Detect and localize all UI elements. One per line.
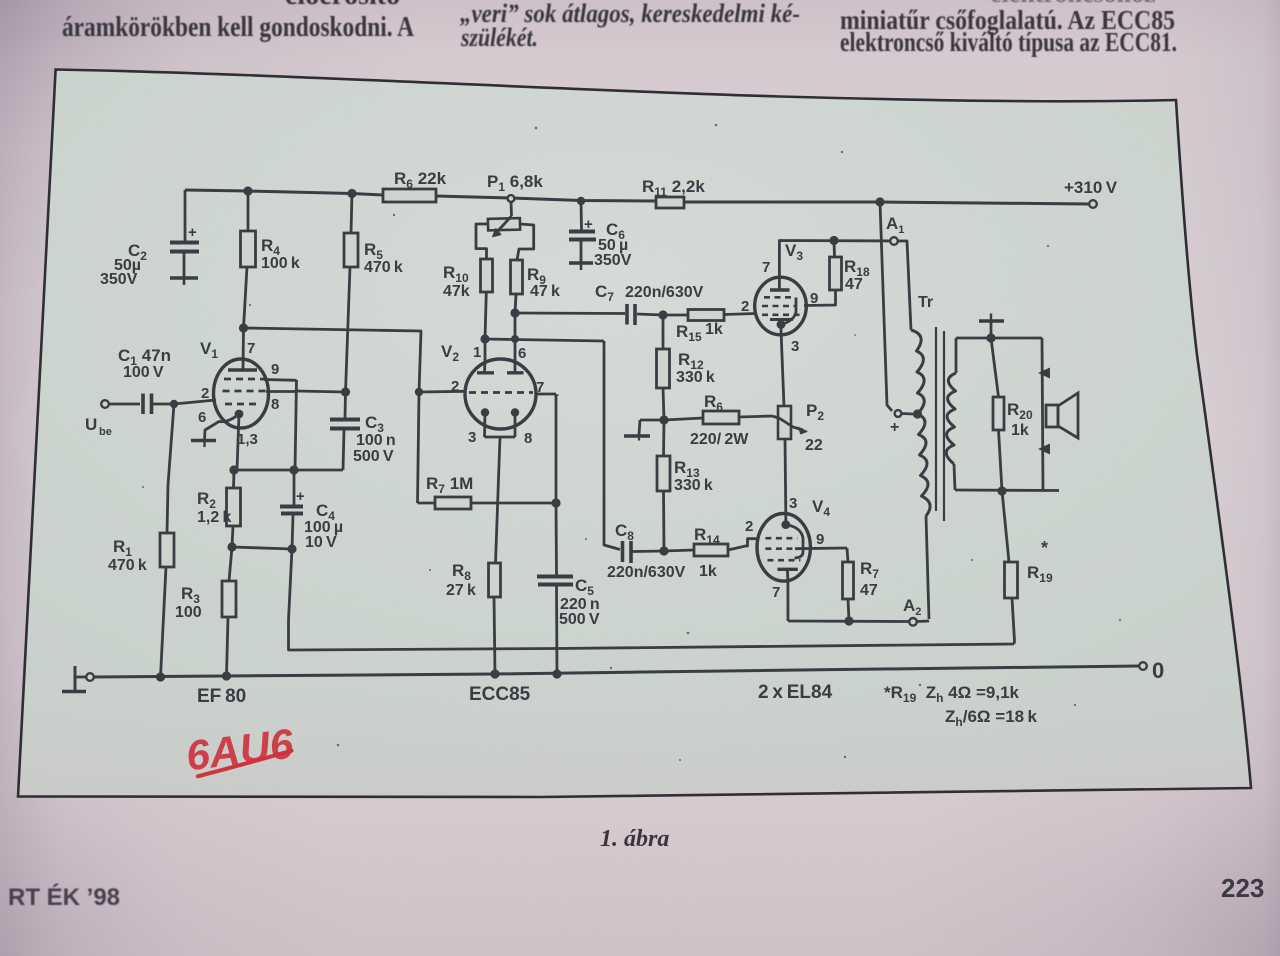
- resistor R9 47k: [511, 260, 561, 339]
- junction cathode R2: [229, 465, 238, 474]
- capacitor C3 100n 500V: [330, 392, 396, 470]
- junction C6 top: [577, 197, 585, 205]
- resistor R11 2,2k: [642, 177, 705, 208]
- resistor R15 1k: [663, 310, 756, 345]
- junction R12 R13 R6: [659, 415, 668, 424]
- junction R1 bottom: [156, 672, 165, 681]
- wire V4 screen to R7: [795, 547, 847, 551]
- label V2 pins: [441, 342, 544, 447]
- tube V4 EL84: [757, 514, 810, 582]
- label ECC85: [469, 684, 531, 705]
- terminal +310V: [1064, 178, 1118, 208]
- wire V3 cathode to P2: [781, 330, 784, 406]
- capacitor C6: [569, 201, 596, 262]
- terminal Tr centre +: [890, 410, 913, 436]
- figure box border frame: [18, 70, 1251, 798]
- junction input R1: [170, 400, 178, 408]
- junction R18 top: [829, 236, 838, 245]
- resistor R4 100k: [241, 191, 300, 328]
- handwritten 6AU6: [183, 720, 296, 780]
- note R19 values: [884, 683, 1038, 729]
- junction C4 feedback: [287, 544, 296, 553]
- caption 1. abra: [600, 826, 669, 852]
- resistor R14 1k: [664, 525, 758, 580]
- junction R3 top: [227, 542, 236, 551]
- junction R3 bottom: [222, 671, 231, 680]
- wire V4 anode row to A2: [788, 581, 929, 621]
- wire secondary top row: [956, 337, 1042, 340]
- label 2xEL84: [758, 682, 833, 703]
- potentiometer P1 6,8k: [476, 172, 543, 260]
- capacitor C2: [170, 190, 199, 277]
- header text right column: [840, 0, 1177, 57]
- dust specks: [142, 124, 1121, 761]
- capacitor C7 220n/630V: [515, 282, 704, 325]
- capacitor C4 100u 10V: [280, 470, 343, 551]
- wire V1 screen to C3: [297, 391, 346, 392]
- resistor R2 1,2k: [197, 470, 241, 547]
- ground C2 chassis bar: [100, 241, 198, 288]
- junction C5 bottom: [552, 669, 561, 678]
- resistor R1 470k: [108, 404, 174, 677]
- resistor R19 feedback: [1002, 491, 1053, 644]
- junction V2 grid R7: [415, 388, 423, 396]
- label EF80: [197, 686, 246, 707]
- resistor R12 330k: [657, 315, 715, 420]
- label V4 pins: [745, 495, 830, 601]
- junction R19 top: [997, 486, 1006, 495]
- resistor R8 27k: [446, 561, 501, 674]
- wire feedback line to cathode: [289, 549, 1015, 650]
- wire V4 cathode to P2: [784, 439, 788, 514]
- resistor R6 220/2W: [664, 392, 772, 448]
- resistor R5 470k: [344, 194, 403, 393]
- junction cathode C4: [289, 465, 298, 474]
- junction R20 top: [986, 333, 995, 342]
- tube V1 EF80: [205, 328, 269, 470]
- wire B+ to Tr centre tap: [880, 202, 892, 411]
- junction R4 top: [243, 186, 252, 195]
- resistor R7 1M: [418, 392, 557, 509]
- wire V2 anode row pins 1 6: [485, 339, 604, 360]
- capacitor C1 47n 100V: [109, 346, 174, 414]
- resistor R6 22k: [383, 169, 447, 202]
- resistor R3 100: [175, 547, 236, 676]
- terminal 0: [1139, 658, 1164, 683]
- wire +310V top bus: [185, 190, 1089, 204]
- transformer Tr primary: [911, 294, 933, 619]
- label V3 pins: [741, 241, 818, 355]
- junction C7 R12 R15: [658, 310, 667, 319]
- junction V1 anode row: [239, 323, 248, 332]
- ground C6 chassis bar: [569, 220, 632, 270]
- junction V2 pin6: [511, 335, 519, 343]
- terminal Ube input: [85, 400, 112, 438]
- wire V2 grid entry: [419, 390, 466, 394]
- junction R9 C7: [510, 308, 519, 317]
- junction R8 bottom: [490, 669, 499, 678]
- wire V2 pin7 to C5: [536, 394, 556, 503]
- capacitor C8 220n/630V: [607, 521, 686, 581]
- footer page number 223: [1221, 873, 1264, 903]
- header text left column: [62, 0, 414, 43]
- footer RT EK 98: [8, 883, 120, 911]
- ground grid return: [624, 420, 664, 441]
- wire V1 cathode row: [234, 469, 343, 472]
- junction R10 V2 pin1: [480, 334, 489, 343]
- wire V3 anode row to A1: [779, 241, 911, 331]
- figure box interior: [18, 70, 1251, 798]
- wire V1 anode to V2 grid: [244, 328, 422, 392]
- wire grid V1 input: [174, 400, 216, 404]
- wire V2 anode to C8: [604, 341, 620, 550]
- ground secondary: [979, 314, 1004, 339]
- terminal A2: [903, 596, 921, 626]
- wire V3 grid entry: [755, 312, 758, 315]
- wire 0V bottom bus: [90, 666, 1139, 677]
- speaker: [1038, 338, 1078, 490]
- junction R7 C5: [551, 498, 560, 507]
- tube V3 EL84: [755, 277, 807, 335]
- transformer Tr secondary: [946, 338, 956, 490]
- junction R7 bottom: [844, 616, 853, 625]
- resistor R10 47k: [443, 259, 493, 339]
- wire secondary bottom row: [955, 489, 1059, 492]
- resistor R7 47: [843, 548, 880, 621]
- header text middle column: [460, 0, 800, 52]
- ground V1 pin6: [191, 441, 216, 448]
- junction V3 branch: [875, 197, 884, 206]
- wire V1 pins 8 9 tie: [264, 380, 297, 471]
- junction R5 top: [347, 189, 356, 198]
- resistor R13 330k: [657, 420, 713, 551]
- potentiometer P2 22: [772, 401, 824, 454]
- junction R5 C3 screen: [341, 387, 350, 396]
- capacitor C5 220n 500V: [537, 503, 600, 674]
- label V1 pins: [198, 339, 279, 448]
- resistor R20 1k: [991, 338, 1033, 491]
- wire cathode lower row: [232, 547, 292, 549]
- terminal input ground: [62, 666, 94, 692]
- transformer core: [936, 327, 944, 521]
- terminal A1: [886, 214, 904, 245]
- resistor R18 47: [804, 241, 870, 306]
- tube V2 ECC85: [465, 359, 536, 563]
- junction C8 R13 R14: [659, 546, 668, 555]
